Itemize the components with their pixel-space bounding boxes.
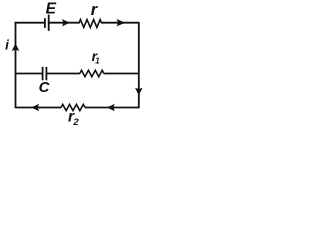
arrow up on left wire (12, 43, 20, 51)
wire: left vertical (15, 22, 17, 108)
resistor r2 zigzag (61, 104, 85, 110)
resistor r zigzag (79, 20, 102, 28)
arrow right on top wire after battery (62, 19, 70, 26)
wire: right vertical (138, 22, 140, 108)
svg-text:i: i (5, 38, 9, 53)
wire: middle branch left to capacitor (16, 73, 43, 75)
capacitor C plates (43, 67, 47, 80)
battery E (cell) (45, 15, 49, 31)
svg-text:2: 2 (72, 117, 79, 127)
wire: top segment resistor r to top-right corner (102, 22, 139, 24)
wire: bottom-right segment (85, 107, 139, 109)
wire: middle branch capacitor to resistor r1 (47, 73, 80, 75)
wire: top-left segment from left corner to battery (16, 21, 45, 24)
arrow left on bottom wire left of r2 (31, 104, 39, 111)
resistor r1 zigzag (80, 70, 104, 76)
svg-text:r: r (91, 1, 99, 19)
wire: bottom-left segment (16, 107, 62, 109)
wire: top segment battery to resistor r (49, 22, 79, 24)
arrow left on bottom wire right of r2 (107, 104, 115, 111)
svg-text:E: E (46, 1, 57, 18)
wire: middle branch resistor r1 to right wire (104, 73, 139, 75)
svg-text:1: 1 (95, 57, 100, 66)
arrow right on top wire after resistor r (117, 19, 126, 26)
svg-text:C: C (39, 79, 51, 96)
arrow down on right wire (135, 88, 143, 96)
